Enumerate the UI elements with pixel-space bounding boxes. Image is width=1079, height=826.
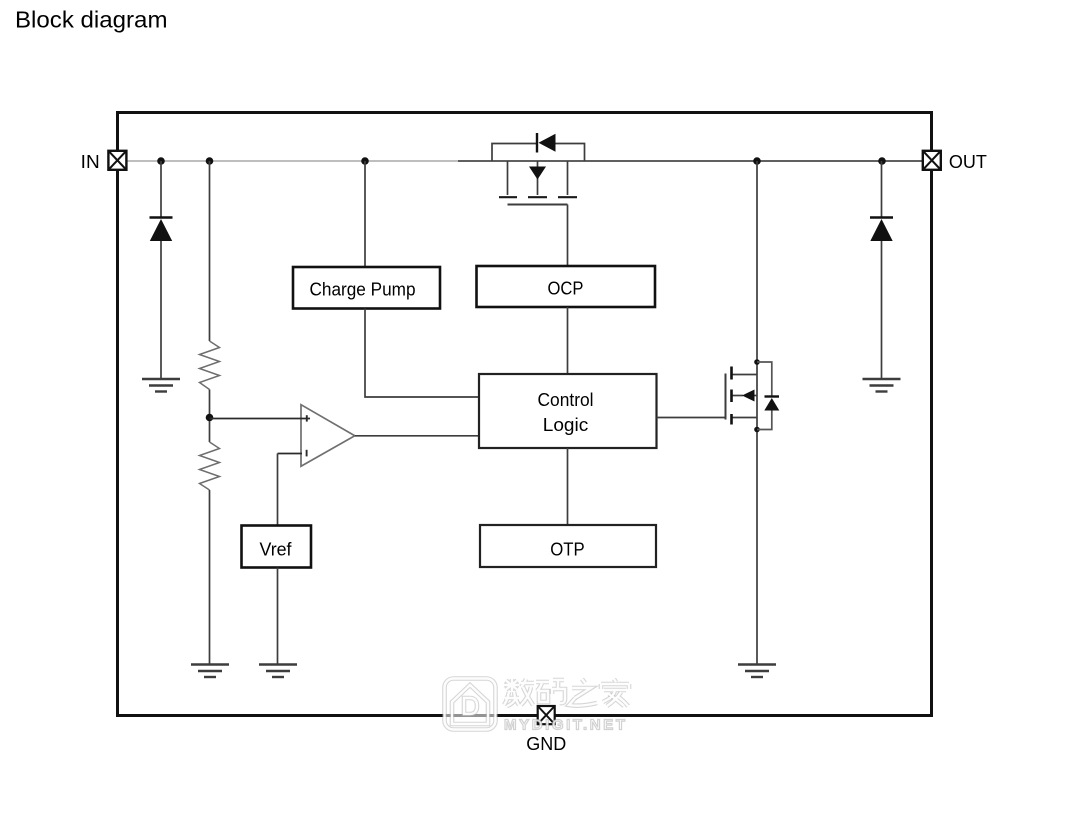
svg-text:OUT: OUT — [949, 152, 987, 172]
svg-text:OTP: OTP — [550, 540, 585, 560]
svg-text:GND: GND — [526, 734, 566, 754]
svg-text:IN: IN — [81, 152, 100, 172]
svg-text:Control: Control — [538, 390, 594, 410]
svg-text:OCP: OCP — [548, 279, 584, 299]
svg-text:Vref: Vref — [260, 540, 293, 560]
svg-text:Charge Pump: Charge Pump — [310, 280, 416, 300]
svg-text:MYDIGIT.NET: MYDIGIT.NET — [504, 717, 628, 734]
svg-text:Logic: Logic — [543, 415, 589, 435]
svg-text:Block diagram: Block diagram — [15, 7, 168, 33]
